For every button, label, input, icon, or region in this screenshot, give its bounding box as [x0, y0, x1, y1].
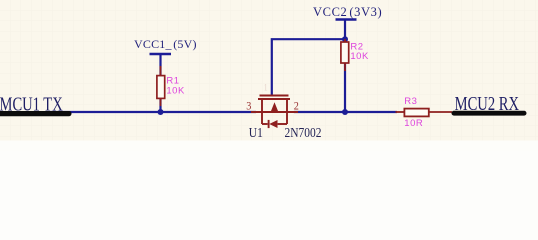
svg-text:2: 2	[294, 100, 299, 113]
svg-text:10K: 10K	[166, 86, 185, 97]
junction dot at R1 / main wire	[158, 109, 164, 115]
right leg (pin 2)	[286, 99, 288, 124]
bulk arrow (points up)	[271, 102, 278, 111]
left leg (pin 3)	[261, 99, 263, 124]
svg-text:3: 3	[246, 100, 251, 113]
wire: VCC2 stem	[344, 20, 346, 40]
wire: main horizontal net MOSFET pin 2 to R3	[294, 111, 397, 113]
pin number 1 (gate, faint)	[264, 83, 268, 93]
body diode triangle	[269, 120, 277, 128]
highlight bar under MCU1 TX	[0, 111, 72, 116]
junction dot at VCC2 / top wire	[342, 36, 348, 42]
resistor R2	[341, 39, 349, 71]
wire: R1 vertical from VCC1 bar to main wire	[159, 54, 161, 112]
svg-text:10K: 10K	[350, 51, 369, 62]
highlight bar under MCU2 RX	[452, 111, 527, 116]
transistor Q/U1 2N7002 MOSFET	[251, 96, 298, 129]
body diode cathode bar	[268, 120, 270, 128]
wire: R2 vertical down to main wire	[344, 39, 346, 112]
pin 3 stub + source/drain line + pin 2 stub	[251, 111, 298, 113]
net label MCU1 TX	[0, 92, 63, 115]
net label MCU2 RX	[455, 92, 520, 115]
svg-text:2N7002: 2N7002	[285, 125, 322, 140]
power symbol VCC1 (bar)	[150, 53, 172, 55]
part number 2N7002	[285, 125, 322, 140]
junction dot at R2 / main wire	[342, 109, 348, 115]
designator U1	[249, 125, 263, 140]
channel line	[258, 98, 290, 100]
svg-text:10R: 10R	[404, 118, 423, 129]
svg-text:VCC1_(5V): VCC1_(5V)	[134, 37, 197, 51]
resistor R3	[396, 109, 453, 117]
gate plate	[260, 95, 289, 97]
pin number 3	[246, 100, 251, 113]
power symbol VCC2 (bar)	[336, 18, 357, 20]
wire: main horizontal net MCU1 TX to MOSFET pin 3	[50, 111, 256, 113]
svg-text:U1: U1	[249, 125, 263, 140]
resistor R1	[157, 66, 165, 106]
svg-text:1: 1	[264, 83, 268, 93]
wire: top horizontal from gate corner to VCC2 junction	[272, 39, 345, 95]
pin number 2	[294, 100, 299, 113]
svg-text:R3: R3	[404, 96, 417, 107]
body U path	[262, 123, 268, 125]
